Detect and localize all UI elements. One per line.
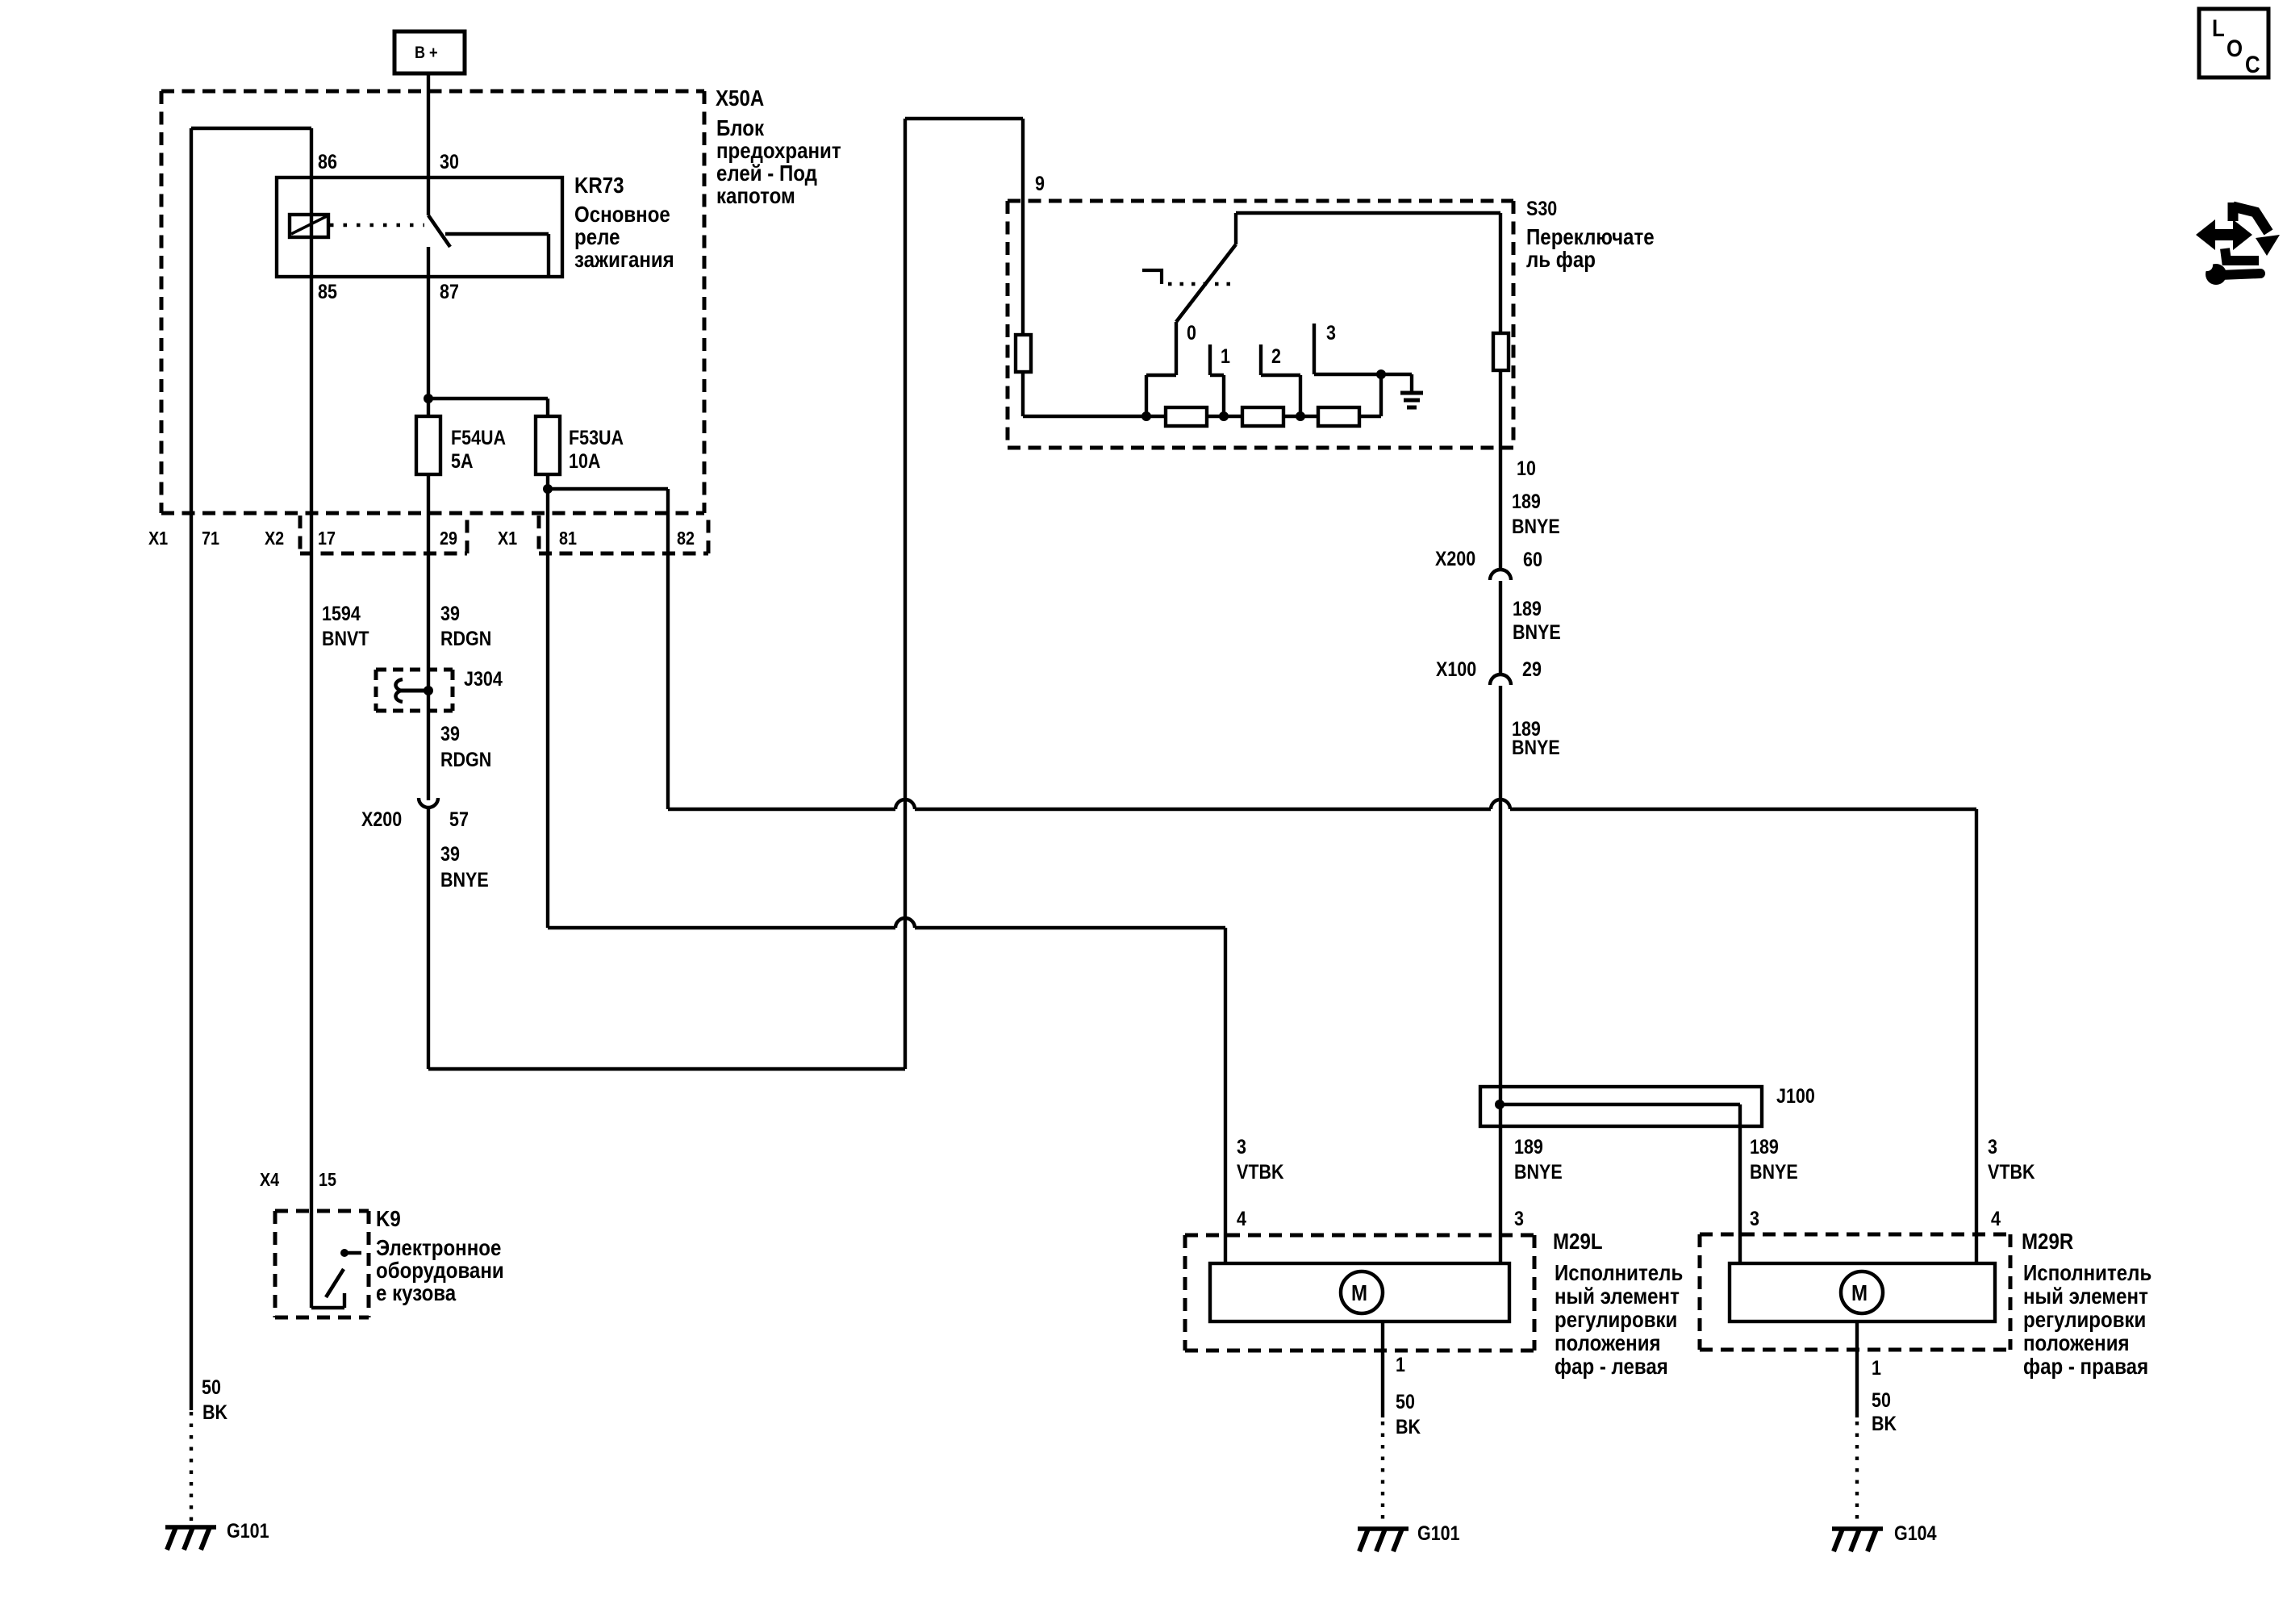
- svg-text:зажигания: зажигания: [574, 246, 674, 272]
- svg-text:3: 3: [1988, 1135, 1997, 1158]
- svg-text:M: M: [1851, 1280, 1868, 1305]
- svg-text:60: 60: [1523, 548, 1542, 570]
- svg-text:RDGN: RDGN: [440, 748, 491, 770]
- svg-text:17: 17: [318, 528, 336, 549]
- svg-text:положения: положения: [2023, 1330, 2130, 1355]
- svg-text:ный элемент: ный элемент: [1555, 1283, 1680, 1309]
- svg-text:3: 3: [1750, 1207, 1759, 1229]
- svg-text:71: 71: [202, 528, 219, 549]
- svg-text:86: 86: [318, 150, 337, 173]
- svg-text:50: 50: [1396, 1390, 1415, 1413]
- svg-text:39: 39: [440, 722, 460, 745]
- svg-text:81: 81: [559, 528, 577, 549]
- svg-text:1: 1: [1396, 1353, 1405, 1376]
- svg-text:ный элемент: ный элемент: [2023, 1283, 2148, 1309]
- svg-text:регулировки: регулировки: [2023, 1306, 2146, 1332]
- svg-text:X1: X1: [498, 528, 517, 549]
- svg-text:S30: S30: [1526, 197, 1557, 219]
- svg-text:87: 87: [440, 280, 459, 303]
- svg-text:KR73: KR73: [574, 172, 624, 198]
- svg-text:X100: X100: [1436, 658, 1476, 680]
- svg-text:Исполнитель: Исполнитель: [2023, 1259, 2151, 1285]
- svg-text:X1: X1: [148, 528, 168, 549]
- svg-text:фар - правая: фар - правая: [2023, 1353, 2148, 1379]
- svg-text:0: 0: [1187, 321, 1196, 344]
- svg-text:O: O: [2226, 35, 2243, 61]
- svg-text:фар - левая: фар - левая: [1555, 1353, 1668, 1379]
- svg-text:F53UA: F53UA: [569, 426, 624, 449]
- svg-text:15: 15: [319, 1170, 336, 1191]
- svg-text:J304: J304: [464, 667, 503, 690]
- svg-text:G101: G101: [227, 1519, 269, 1542]
- svg-text:29: 29: [440, 528, 457, 549]
- svg-text:G101: G101: [1417, 1522, 1460, 1544]
- svg-text:BNYE: BNYE: [1512, 736, 1560, 758]
- svg-text:BNYE: BNYE: [440, 868, 489, 891]
- svg-text:M: M: [1351, 1280, 1367, 1305]
- svg-text:BNVT: BNVT: [322, 627, 369, 649]
- svg-text:BK: BK: [202, 1401, 227, 1423]
- svg-text:L: L: [2212, 15, 2225, 41]
- svg-text:50: 50: [1872, 1388, 1891, 1411]
- svg-text:X200: X200: [1435, 547, 1475, 570]
- svg-text:G104: G104: [1894, 1522, 1937, 1544]
- svg-text:M29L: M29L: [1553, 1228, 1603, 1254]
- svg-text:5A: 5A: [451, 449, 474, 472]
- svg-text:положения: положения: [1555, 1330, 1661, 1355]
- svg-text:82: 82: [677, 528, 695, 549]
- svg-text:1: 1: [1872, 1356, 1881, 1379]
- svg-text:BNYE: BNYE: [1514, 1160, 1563, 1183]
- svg-text:ль фар: ль фар: [1526, 246, 1596, 272]
- svg-text:X2: X2: [265, 528, 284, 549]
- svg-text:10A: 10A: [569, 449, 601, 472]
- svg-text:RDGN: RDGN: [440, 627, 491, 649]
- svg-text:F54UA: F54UA: [451, 426, 506, 449]
- svg-text:X200: X200: [361, 808, 402, 830]
- svg-text:BK: BK: [1872, 1412, 1897, 1434]
- svg-text:189: 189: [1750, 1135, 1779, 1158]
- svg-text:4: 4: [1991, 1207, 2001, 1229]
- svg-text:е кузова: е кузова: [376, 1280, 457, 1305]
- svg-text:3: 3: [1237, 1135, 1246, 1158]
- svg-text:189: 189: [1512, 490, 1541, 512]
- svg-text:10: 10: [1517, 457, 1536, 479]
- svg-text:3: 3: [1514, 1207, 1524, 1229]
- svg-text:C: C: [2245, 51, 2260, 77]
- svg-text:50: 50: [202, 1376, 221, 1398]
- svg-text:BNYE: BNYE: [1513, 620, 1561, 643]
- svg-text:X4: X4: [260, 1170, 279, 1191]
- svg-text:BK: BK: [1396, 1415, 1421, 1438]
- svg-text:K9: K9: [376, 1205, 401, 1231]
- svg-text:капотом: капотом: [716, 182, 795, 208]
- svg-text:B +: B +: [415, 44, 438, 63]
- svg-text:M29R: M29R: [2022, 1228, 2073, 1254]
- svg-text:30: 30: [440, 150, 459, 173]
- svg-text:39: 39: [440, 842, 460, 865]
- svg-text:J100: J100: [1776, 1084, 1815, 1107]
- svg-text:VTBK: VTBK: [1988, 1160, 2035, 1183]
- svg-text:1594: 1594: [322, 602, 361, 624]
- svg-text:85: 85: [318, 280, 337, 303]
- svg-text:1: 1: [1221, 344, 1230, 367]
- svg-text:29: 29: [1522, 658, 1542, 680]
- svg-text:39: 39: [440, 602, 460, 624]
- svg-text:4: 4: [1237, 1207, 1246, 1229]
- svg-text:189: 189: [1513, 597, 1542, 620]
- svg-text:3: 3: [1326, 321, 1336, 344]
- svg-text:VTBK: VTBK: [1237, 1160, 1284, 1183]
- svg-text:57: 57: [449, 808, 469, 830]
- svg-text:189: 189: [1514, 1135, 1543, 1158]
- svg-text:X50A: X50A: [716, 85, 764, 111]
- svg-text:регулировки: регулировки: [1555, 1306, 1677, 1332]
- svg-text:9: 9: [1035, 172, 1045, 194]
- svg-text:BNYE: BNYE: [1512, 515, 1560, 537]
- svg-text:BNYE: BNYE: [1750, 1160, 1798, 1183]
- svg-text:2: 2: [1271, 344, 1281, 367]
- svg-text:Исполнитель: Исполнитель: [1555, 1259, 1683, 1285]
